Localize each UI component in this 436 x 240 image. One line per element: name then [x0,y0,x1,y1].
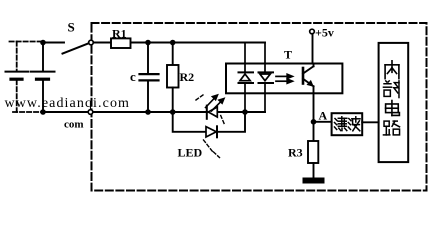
capacitor c label [130,69,136,84]
resistor R3 label [288,146,303,160]
resistor R2 [167,43,179,113]
resistor R2 label [180,70,195,84]
resistor R1 label [112,27,127,41]
wire opto emitter to node A [313,93,315,141]
svg-text:R1: R1 [112,27,127,41]
opto input diode d2 (down) [259,43,274,113]
module boundary dashed box [92,23,427,191]
svg-text:com: com [64,119,84,131]
ground [303,178,325,184]
diode D2 lower branch [206,126,217,137]
junction dot top of capacitor [145,40,151,46]
wire lower LED branch [173,112,245,132]
wire node A to filter [314,121,332,123]
wire com rail [43,111,265,113]
opto input diode d1 (up) [239,43,254,113]
junction dot battery bottom [40,109,46,115]
filter text strokes (滤波) [335,117,361,131]
filter box (Chinese: lü bo) [332,113,363,135]
internal circuit box (内部电路) [379,43,409,162]
LED label [178,146,203,160]
svg-text:A: A [319,109,328,123]
internal circuit char 部 [383,81,399,98]
LED D1 emission arrows [206,95,225,111]
+5v label [315,26,334,40]
internal circuit char 路 [383,121,399,135]
light coupling arrows [276,74,292,83]
junction dot com opto return [242,109,248,115]
svg-text:R2: R2 [180,70,195,84]
resistor R3 [308,141,318,178]
resistor R1 [111,38,131,48]
switch S label [68,20,75,35]
junction dot com R2 / branch [170,109,176,115]
internal circuit char 电 [386,101,400,116]
wire +5v to opto collector [312,34,314,64]
battery B2 [31,43,55,113]
wire filter to internal circuit box [362,121,378,123]
node A junction dot [311,119,317,125]
svg-text:+5v: +5v [315,26,334,40]
svg-text:www.eadianqi.com: www.eadianqi.com [5,96,131,111]
optocoupler T label [284,48,292,62]
battery B1 (dashed standby cell) [6,42,43,113]
svg-text:T: T [284,48,292,62]
phototransistor [303,64,314,94]
svg-text:S: S [68,20,75,35]
node A label [319,109,328,123]
wire top rail [43,42,265,44]
terminal circle com at boundary [88,110,93,115]
svg-text:c: c [130,69,136,84]
diode D2 dashed emission marks [196,94,225,158]
junction dot top of R2 [170,40,176,46]
+5v terminal [310,29,315,34]
capacitor c [140,43,159,113]
svg-text:R3: R3 [288,146,303,160]
com label [64,119,84,131]
junction dot battery top [40,40,46,46]
svg-text:LED: LED [178,146,203,160]
internal circuit char 内 [385,61,399,79]
watermark [5,96,131,111]
junction dot com capacitor [145,109,151,115]
switch S [63,40,94,53]
optocoupler T box [226,64,342,94]
LED D1 upper indicator diode on com rail [207,106,218,119]
